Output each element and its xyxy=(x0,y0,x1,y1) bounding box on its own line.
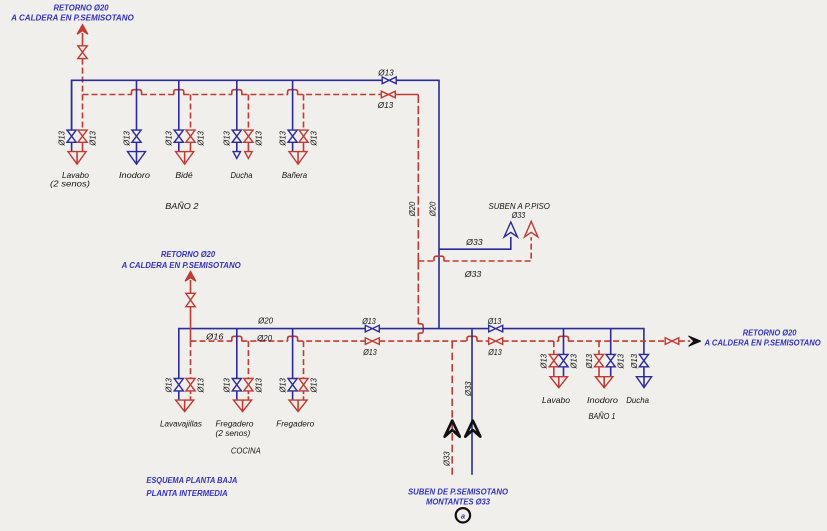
Lavabo red drop xyxy=(553,341,555,354)
Lavabo red drop xyxy=(82,95,84,131)
Fregadero(2senos) red drop xyxy=(247,341,249,378)
svg-text:Ø33: Ø33 xyxy=(511,210,525,220)
arrow Ducha blue small xyxy=(233,152,240,159)
valve lower red 2 xyxy=(489,338,503,345)
svg-text:Ø13: Ø13 xyxy=(539,354,549,370)
pipe solid to red bus xyxy=(190,307,192,341)
Fregadero red drop xyxy=(303,341,305,378)
pipe red montante dashed xyxy=(451,341,453,475)
valve top-right red (horizontal bowtie) xyxy=(381,91,395,98)
svg-text:Lavavajillas: Lavavajillas xyxy=(160,419,203,429)
svg-text:Bañera: Bañera xyxy=(282,170,307,180)
pipe: lower red bus dashed segments with hops and valve gaps xyxy=(191,340,691,342)
svg-text:Ø33: Ø33 xyxy=(464,269,482,279)
Ducha red drop xyxy=(247,95,249,131)
valve retorno right (red horizontal bowtie) xyxy=(665,338,679,345)
svg-text:Ø13: Ø13 xyxy=(278,131,288,147)
svg-text:(2 senos): (2 senos) xyxy=(215,428,250,438)
svg-text:(2 senos): (2 senos) xyxy=(50,178,90,188)
svg-text:Ø13: Ø13 xyxy=(377,100,394,110)
svg-text:Ø13: Ø13 xyxy=(308,131,318,147)
pipe retorno top-left dashed to bus xyxy=(82,59,84,95)
pipe retorno top-left solid stub xyxy=(82,33,84,46)
arrow suben red (outline dart up) xyxy=(525,221,538,237)
svg-text:Ø33: Ø33 xyxy=(442,451,452,467)
svg-text:Ø13: Ø13 xyxy=(584,354,594,370)
svg-text:Ducha: Ducha xyxy=(626,395,649,405)
svg-text:Ø13: Ø13 xyxy=(616,354,626,370)
svg-text:Ø13: Ø13 xyxy=(222,378,232,394)
svg-text:RETORNO Ø20: RETORNO Ø20 xyxy=(54,3,110,12)
arrow up retorno top-left (red filled dart) xyxy=(77,25,88,35)
svg-text:BAÑO 2: BAÑO 2 xyxy=(165,201,198,211)
Banera blue drop xyxy=(292,80,294,151)
arrow up retorno cocina xyxy=(185,271,196,281)
svg-text:Ø20: Ø20 xyxy=(428,202,438,218)
svg-text:A CALDERA EN P.SEMISOTANO: A CALDERA EN P.SEMISOTANO xyxy=(10,14,134,23)
Bide red drop xyxy=(190,95,192,131)
Inodoro red drop xyxy=(598,341,600,354)
svg-text:Ø13: Ø13 xyxy=(164,131,174,147)
svg-text:PLANTA INTERMEDIA: PLANTA INTERMEDIA xyxy=(146,489,228,498)
Lavabo blue drop xyxy=(563,329,565,377)
svg-text:MONTANTES Ø33: MONTANTES Ø33 xyxy=(426,498,491,507)
svg-text:Ø13: Ø13 xyxy=(377,68,394,78)
hop red O33 over blue vertical xyxy=(434,256,444,261)
svg-text:Inodoro: Inodoro xyxy=(587,395,618,405)
pipe: top red bus dashed segments with hops xyxy=(83,94,382,96)
pipe: top blue bus with left corner down to Lavabo and right corner down (feed) xyxy=(72,80,439,328)
hops on top red bus over blue drops xyxy=(132,90,142,95)
valve lower blue 1 xyxy=(365,325,379,332)
svg-text:Ducha: Ducha xyxy=(231,170,253,180)
pipe blue O33 branch xyxy=(439,237,511,249)
svg-text:SUBEN DE P.SEMISOTANO: SUBEN DE P.SEMISOTANO xyxy=(408,488,508,497)
Inodoro blue drop xyxy=(136,80,138,151)
svg-text:ESQUEMA PLANTA BAJA: ESQUEMA PLANTA BAJA xyxy=(146,476,237,485)
valve Lavabo red xyxy=(78,130,87,142)
svg-text:A CALDERA EN P.SEMISOTANO: A CALDERA EN P.SEMISOTANO xyxy=(121,261,241,270)
svg-text:Inodoro: Inodoro xyxy=(119,170,150,180)
svg-text:Ø13: Ø13 xyxy=(568,354,578,370)
svg-text:Ø13: Ø13 xyxy=(487,316,502,326)
svg-text:RETORNO Ø20: RETORNO Ø20 xyxy=(743,329,797,338)
svg-text:Ø20: Ø20 xyxy=(407,202,417,218)
valve retorno top-left (vertical bowtie) xyxy=(78,46,87,59)
Bide blue drop xyxy=(178,80,180,151)
arrow Lavavajillas xyxy=(176,400,194,412)
Ducha blue drop (bus right corner continues) xyxy=(643,367,645,377)
svg-text:Ø13: Ø13 xyxy=(253,131,263,147)
valve lower red 1 xyxy=(365,338,379,345)
pipe: top red bus solid from valve to corner, then vertical feed down xyxy=(395,94,418,96)
svg-text:Ø13: Ø13 xyxy=(222,131,232,147)
svg-text:Ø13: Ø13 xyxy=(278,378,288,394)
svg-text:Ø13: Ø13 xyxy=(164,378,174,394)
arrow montante red (black dart up) xyxy=(445,421,460,437)
valve Inodoro blue xyxy=(132,130,141,142)
arrow Fregadero xyxy=(289,400,307,412)
svg-text:COCINA: COCINA xyxy=(231,445,261,455)
arrow montante blue (black dart up) xyxy=(465,421,480,437)
Lavavajillas red drop xyxy=(190,341,192,378)
valve Lavabo blue xyxy=(67,130,76,142)
pipe stub xyxy=(190,280,192,293)
svg-text:Ø13: Ø13 xyxy=(253,378,263,394)
svg-text:Ø13: Ø13 xyxy=(629,354,639,370)
svg-text:Ø13: Ø13 xyxy=(487,347,502,357)
arrow Lavabo bano1 xyxy=(550,377,568,388)
Lavabo blue drop xyxy=(71,80,73,151)
arrow Lavabo (red triangle with centre line) xyxy=(68,152,86,165)
svg-text:a: a xyxy=(461,511,465,520)
svg-text:Ø33: Ø33 xyxy=(465,237,483,247)
pipe: red feed vertical dashed xyxy=(417,95,419,342)
arrow Ducha red small xyxy=(245,152,252,159)
svg-text:Lavabo: Lavabo xyxy=(542,395,570,405)
svg-text:RETORNO Ø20: RETORNO Ø20 xyxy=(161,250,216,259)
svg-text:Ø13: Ø13 xyxy=(87,131,97,147)
pipe blue montante solid xyxy=(471,329,473,475)
svg-text:Ø13: Ø13 xyxy=(195,131,205,147)
arrow suben blue (outline dart up) xyxy=(504,222,517,237)
arrow Bide xyxy=(176,152,194,165)
svg-text:Ø13: Ø13 xyxy=(361,316,376,326)
Ducha blue drop xyxy=(236,80,238,151)
Fregadero blue drop xyxy=(292,329,294,401)
svg-text:BAÑO 1: BAÑO 1 xyxy=(588,411,615,421)
svg-text:Ø16: Ø16 xyxy=(205,331,224,341)
node circle a xyxy=(456,508,470,522)
svg-text:Ø20: Ø20 xyxy=(256,333,272,343)
arrow Inodoro bano1 xyxy=(595,377,613,388)
svg-text:A CALDERA EN P.SEMISOTANO: A CALDERA EN P.SEMISOTANO xyxy=(704,339,821,348)
svg-text:Ø13: Ø13 xyxy=(308,378,318,394)
svg-text:Fregadero: Fregadero xyxy=(276,419,314,429)
hops on lower red bus xyxy=(232,336,242,341)
svg-text:Ø20: Ø20 xyxy=(257,316,273,326)
svg-text:Ø13: Ø13 xyxy=(57,131,67,147)
Inodoro blue drop xyxy=(610,329,612,377)
svg-text:Bidé: Bidé xyxy=(175,170,193,180)
Banera red drop xyxy=(303,95,305,131)
svg-text:Ø13: Ø13 xyxy=(121,131,131,147)
arrow to caldera (black dart right) xyxy=(689,336,701,346)
valve top-right blue (horizontal bowtie) xyxy=(382,77,396,84)
Fregadero(2senos) blue drop xyxy=(236,329,238,401)
arrow Fregadero(2senos) xyxy=(234,400,252,412)
pipe: lower blue bus with left corner (Lavavajillas) and right corner (Ducha bano1) xyxy=(179,329,644,379)
arrow Inodoro (blue triangle) xyxy=(128,152,146,165)
arrow Banera xyxy=(289,152,307,165)
svg-text:Ø33: Ø33 xyxy=(463,381,473,397)
svg-text:Ø13: Ø13 xyxy=(195,378,205,394)
valve retorno cocina xyxy=(186,293,195,306)
svg-text:Ø13: Ø13 xyxy=(362,347,377,357)
Lavavajillas blue drop (bus corner continues) xyxy=(178,391,180,400)
hop: red feed vertical bump over blue bus xyxy=(418,324,423,333)
valve lower blue 2 xyxy=(489,325,503,332)
arrow Ducha bano1 blue xyxy=(636,377,651,388)
pipe red O33 branch dashed with hop at 439 xyxy=(418,237,531,261)
